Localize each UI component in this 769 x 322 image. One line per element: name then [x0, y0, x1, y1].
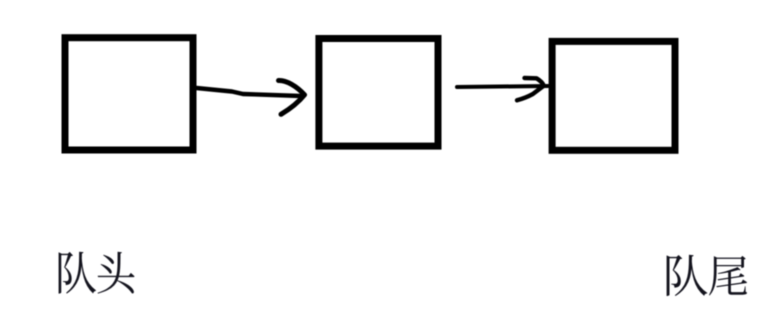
text 头 (of 队头 queue-head label): [98, 252, 135, 294]
wire: arrow 1 shaft (box 1 to box 2): [197, 88, 302, 96]
queue node box 3 (tail node): [552, 41, 675, 150]
wire: arrow 2 shaft (box 2 to box 3): [457, 86, 548, 87]
text 队 (of 队头 queue-head label): [59, 252, 96, 294]
text 队 (of 队尾 queue-tail label): [667, 255, 708, 296]
arrow 2 head: [517, 78, 544, 100]
text 尾 (of 队尾 queue-tail label): [709, 256, 747, 296]
arrow 1 head: [279, 80, 305, 114]
queue node box 1 (head node): [65, 38, 193, 150]
queue node box 2 (middle node): [319, 39, 438, 147]
